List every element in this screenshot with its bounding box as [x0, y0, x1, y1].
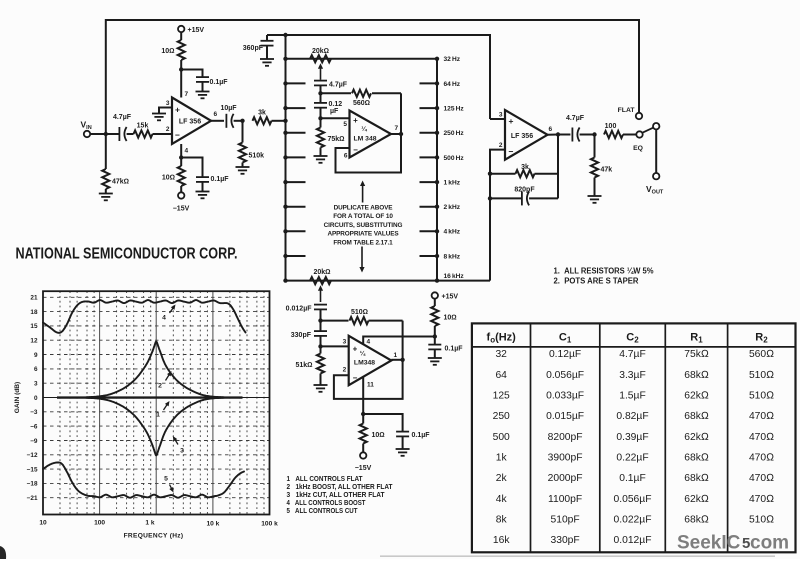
wire VIN to input node: [90, 133, 119, 135]
scan artifact bottom left corner: [0, 546, 6, 559]
switch arm: [643, 128, 654, 133]
ground 47k: [99, 194, 113, 201]
wire bus A stub row 2k: [286, 206, 306, 208]
svg-text:62kΩ: 62kΩ: [684, 494, 709, 505]
wire bus A stub row 1k: [286, 181, 306, 183]
svg-text:3 1kHz CUT, ALL OTHER FLAT: 3 1kHz CUT, ALL OTHER FLAT: [287, 492, 386, 499]
svg-text:0.022µF: 0.022µF: [614, 514, 652, 525]
terminal VIN: [84, 131, 90, 137]
svg-text:−15V: −15V: [355, 465, 372, 472]
svg-text:3k: 3k: [521, 164, 529, 171]
svg-text:3: 3: [180, 448, 184, 455]
resistor 47k output shunt: [594, 135, 596, 158]
svg-text:¼: ¼: [360, 350, 366, 358]
wire row 32Hz pot row: [286, 58, 438, 60]
svg-text:2k: 2k: [496, 473, 508, 484]
svg-text:+15V: +15V: [442, 294, 459, 301]
resistor 100 output: [604, 131, 623, 138]
svg-text:16k: 16k: [493, 535, 510, 546]
ground 75k: [314, 156, 328, 163]
svg-text:64 Hz: 64 Hz: [444, 81, 461, 88]
svg-text:560Ω: 560Ω: [749, 349, 774, 360]
node X band1: [318, 91, 322, 95]
scan artifact bottom smear: [380, 555, 775, 557]
svg-text:820pF: 820pF: [514, 187, 535, 194]
ground 0.1uF pin11: [396, 449, 410, 456]
svg-text:GAIN (dB): GAIN (dB): [14, 382, 21, 414]
svg-text:1.5µF: 1.5µF: [619, 391, 646, 402]
svg-text:FLAT: FLAT: [618, 107, 636, 114]
graph grid 0dB line: [43, 397, 270, 399]
wire feedback vertical to output: [557, 135, 559, 199]
svg-text:4.7µF: 4.7µF: [113, 114, 132, 121]
svg-text:250: 250: [493, 411, 510, 422]
svg-text:−15V: −15V: [173, 206, 190, 213]
svg-text:com: com: [750, 533, 789, 554]
capacitor 4.7uF output coupling: [572, 128, 579, 142]
svg-text:11: 11: [367, 382, 374, 389]
svg-text:4: 4: [185, 148, 189, 155]
svg-text:500 Hz: 500 Hz: [444, 155, 465, 162]
svg-text:LM 348: LM 348: [353, 136, 376, 143]
capacitor C2 4.7uF band1: [314, 81, 327, 86]
svg-text:560Ω: 560Ω: [353, 100, 370, 107]
svg-text:1: 1: [156, 412, 160, 419]
svg-text:500: 500: [493, 432, 510, 443]
svg-text:6: 6: [214, 111, 218, 118]
terminal +15V: [178, 26, 184, 32]
wire R2 band10 down to output: [402, 321, 404, 360]
svg-text:510Ω: 510Ω: [749, 370, 774, 381]
svg-text:470Ω: 470Ω: [749, 473, 774, 484]
svg-text:62kΩ: 62kΩ: [684, 391, 709, 402]
wire pin2 U4 feedback bus: [490, 150, 505, 281]
svg-text:2 kHz: 2 kHz: [444, 204, 461, 211]
wire to node X band10: [320, 309, 322, 320]
wire U3 feedback wrap: [334, 360, 403, 399]
ground 0.1uF pin7: [196, 92, 210, 99]
wire U1 output: [211, 120, 224, 122]
graph decade lines: [99, 291, 101, 514]
ground 47k output: [588, 196, 602, 203]
svg-text:510Ω: 510Ω: [749, 391, 774, 402]
svg-text:68kΩ: 68kΩ: [684, 473, 709, 484]
node U2 output: [399, 132, 403, 136]
svg-text:0.1µF: 0.1µF: [412, 432, 431, 439]
capacitor 360pF: [266, 35, 268, 41]
wire U3 output: [391, 359, 402, 361]
graph axes border: [43, 291, 270, 514]
svg-text:18: 18: [30, 309, 38, 316]
svg-text:−21: −21: [27, 495, 38, 502]
svg-text:0.1µF: 0.1µF: [211, 176, 230, 183]
svg-text:0.012µF: 0.012µF: [286, 306, 313, 313]
capacitor C1 0.12uF band1: [320, 93, 322, 103]
svg-text:3: 3: [34, 381, 38, 388]
svg-text:10Ω: 10Ω: [444, 315, 457, 322]
svg-text:75kΩ: 75kΩ: [328, 136, 345, 143]
svg-text:FROM TABLE 2.17.1: FROM TABLE 2.17.1: [333, 239, 393, 246]
wire bus A stub row 500: [286, 156, 306, 158]
svg-text:68kΩ: 68kΩ: [684, 452, 709, 463]
svg-text:0.1µF: 0.1µF: [619, 473, 646, 484]
svg-text:¼: ¼: [361, 125, 367, 133]
wire VIN-bypass top rail from input node to FLAT switch: [106, 20, 639, 134]
svg-text:0.82µF: 0.82µF: [616, 411, 648, 422]
wire bus B stub row 4k: [420, 230, 438, 232]
resistor 510k shunt: [242, 121, 244, 143]
svg-text:−: −: [353, 146, 358, 155]
ground 0.1uF +15V rail: [428, 358, 442, 365]
svg-text:470Ω: 470Ω: [749, 452, 774, 463]
svg-text:3: 3: [343, 339, 347, 346]
wire bus A stub row 64: [286, 82, 306, 84]
svg-text:10Ω: 10Ω: [162, 175, 175, 182]
svg-text:6: 6: [34, 366, 38, 373]
wire bus A stub row 250: [286, 132, 306, 134]
curve 2 1kHz boost: [86, 342, 224, 398]
svg-text:7: 7: [185, 91, 189, 98]
svg-text:4.7µF: 4.7µF: [619, 349, 646, 360]
graph grid horizontal dashed: [43, 297, 270, 497]
svg-text:1 ALL CONTROLS FLAT: 1 ALL CONTROLS FLAT: [287, 476, 364, 483]
svg-text:360pF: 360pF: [243, 45, 264, 52]
capacitor 0.1uF pin7 bypass: [181, 70, 202, 78]
potentiometer 20k top: [310, 55, 331, 62]
wire wiper cap node: [320, 85, 322, 93]
op-amp U1 LF356 input buffer: [172, 98, 211, 145]
node X band10: [318, 318, 322, 322]
svg-text:20kΩ: 20kΩ: [312, 48, 329, 55]
svg-text:6: 6: [344, 153, 348, 160]
terminal -15V: [178, 192, 184, 198]
terminal EQ: [636, 131, 642, 137]
wire pin4 U3 to +15V rail: [363, 337, 435, 345]
svg-text:0.12µF: 0.12µF: [549, 349, 581, 360]
wire bus A stub row 125: [286, 107, 306, 109]
svg-text:0.12: 0.12: [329, 101, 343, 108]
node bus B bottom junction: [435, 278, 439, 282]
wire bus B right frequency bus: [436, 59, 438, 281]
svg-text:330pF: 330pF: [291, 332, 312, 339]
svg-text:0.22µF: 0.22µF: [616, 452, 648, 463]
ground pin3 U1: [152, 114, 166, 121]
svg-text:LM348: LM348: [354, 360, 375, 367]
table column dividers: [530, 323, 532, 552]
op-amp U2 quarter LM348 band1: [350, 111, 392, 158]
wire bus B stub row 125: [420, 107, 438, 109]
wire bus A stub row 8k: [286, 255, 306, 257]
node bus A row1: [283, 57, 287, 61]
resistor 10 Ohm -15V: [180, 158, 182, 167]
node 10uF output junction: [240, 119, 244, 123]
node U4 output: [556, 132, 560, 136]
terminal FLAT: [636, 113, 642, 119]
capacitor 0.1uF +15V rail: [434, 337, 436, 345]
svg-text:250 Hz: 250 Hz: [444, 130, 465, 137]
svg-text:68kΩ: 68kΩ: [684, 514, 709, 525]
terminal switch pole: [653, 123, 659, 129]
node feedback 3k junction: [488, 172, 492, 176]
svg-text:2: 2: [158, 383, 162, 390]
curve 5 all controls cut: [43, 463, 244, 498]
svg-text:6: 6: [549, 126, 553, 133]
terminal -15V band10: [360, 452, 366, 458]
wire bus B stub row 2k: [420, 206, 438, 208]
node input junction: [104, 132, 108, 136]
wire pole to VOUT: [655, 129, 657, 173]
svg-text:100: 100: [605, 123, 617, 130]
svg-text:1: 1: [394, 352, 398, 359]
svg-text:10Ω: 10Ω: [161, 48, 174, 55]
svg-text:4k: 4k: [496, 494, 508, 505]
wire pin4 U1 supply: [180, 144, 182, 158]
node pin4 supply junction: [179, 155, 183, 159]
wire bus B stub row 500: [420, 156, 438, 158]
wire band10 to pin3: [321, 345, 349, 347]
svg-text:0.033µF: 0.033µF: [546, 391, 584, 402]
op-amp U3 quarter LM348 band10: [349, 336, 392, 385]
svg-text:47k: 47k: [601, 167, 613, 174]
svg-text:8 kHz: 8 kHz: [444, 253, 461, 260]
svg-text:−: −: [175, 130, 180, 140]
svg-text:32: 32: [495, 349, 507, 360]
svg-text:100: 100: [94, 520, 105, 527]
pot wiper arrow top: [320, 66, 322, 80]
node output junction: [592, 132, 596, 136]
svg-text:EQ: EQ: [633, 145, 643, 152]
curve 4 all controls boost: [43, 300, 246, 333]
ground 0.1uF pin4: [196, 192, 210, 199]
svg-text:5: 5: [164, 476, 168, 483]
svg-text:4 kHz: 4 kHz: [444, 229, 461, 236]
resistor 10 Ohm +15V: [180, 60, 182, 70]
svg-text:+: +: [353, 116, 358, 125]
wire bus B stub row 250: [420, 132, 438, 134]
wire bus A stub row 4k: [286, 230, 306, 232]
svg-text:2: 2: [166, 126, 170, 133]
wire box top rail to 360pF and output amp pin3: [267, 35, 490, 119]
svg-text:+: +: [509, 116, 514, 126]
svg-text:FREQUENCY (Hz): FREQUENCY (Hz): [124, 533, 184, 540]
svg-text:8200pF: 8200pF: [548, 432, 583, 443]
svg-text:1 k: 1 k: [145, 520, 154, 527]
capacitor C2 330pF band10: [320, 321, 322, 332]
svg-text:100 k: 100 k: [261, 521, 278, 528]
resistor R1 75k band1: [320, 118, 322, 127]
svg-text:16 kHz: 16 kHz: [444, 273, 465, 280]
ground 360pF: [260, 59, 274, 66]
svg-text:10 k: 10 k: [206, 521, 219, 528]
svg-text:510Ω: 510Ω: [749, 514, 774, 525]
node U3 output: [400, 358, 404, 362]
wire bus B stub row 8k: [420, 255, 438, 257]
svg-text:470Ω: 470Ω: [749, 411, 774, 422]
node feedback 820pF junction: [488, 196, 492, 200]
svg-text:1 kHz: 1 kHz: [444, 180, 461, 187]
svg-text:NATIONAL SEMICONDUCTOR CORP.: NATIONAL SEMICONDUCTOR CORP.: [16, 246, 238, 263]
resistor 10 Ohm -15V band10: [362, 414, 364, 424]
svg-text:21: 21: [30, 295, 38, 302]
svg-text:4.7µF: 4.7µF: [566, 115, 585, 122]
svg-text:8k: 8k: [496, 514, 508, 525]
potentiometer 20k bottom: [310, 277, 331, 284]
svg-text:12: 12: [30, 338, 38, 345]
svg-text:3: 3: [166, 100, 170, 107]
svg-text:20kΩ: 20kΩ: [313, 269, 330, 276]
node pin11 junction: [361, 412, 365, 416]
arrow duplicate up: [362, 184, 364, 203]
svg-text:68kΩ: 68kΩ: [684, 411, 709, 422]
svg-text:+15V: +15V: [188, 27, 205, 34]
curve 1 all controls flat: [57, 396, 243, 398]
svg-text:2. POTS ARE S TAPER: 2. POTS ARE S TAPER: [554, 276, 639, 285]
table component values border: [472, 323, 796, 552]
svg-text:125 Hz: 125 Hz: [444, 106, 465, 113]
node bus B top corner: [435, 57, 439, 61]
curve 3 1kHz cut: [86, 398, 224, 456]
ground 510k: [236, 167, 250, 174]
svg-text:+: +: [353, 345, 358, 354]
wire pin3 U4: [490, 118, 505, 120]
svg-text:0.015µF: 0.015µF: [546, 411, 584, 422]
capacitor C1 0.012uF band10: [314, 305, 327, 310]
capacitor 4.7uF input coupling: [119, 127, 126, 141]
svg-text:−9: −9: [30, 438, 38, 445]
svg-text:5: 5: [343, 121, 347, 128]
resistor 10 Ohm +15V band10: [434, 299, 436, 306]
capacitor 0.1uF pin11 bypass: [363, 414, 402, 432]
svg-text:µF: µF: [330, 108, 339, 115]
pot wiper arrow bottom: [320, 288, 322, 302]
svg-text:4.7µF: 4.7µF: [329, 82, 348, 89]
svg-text:510pF: 510pF: [550, 514, 579, 525]
capacitor 820pF feedback: [490, 197, 522, 199]
capacitor 0.1uF pin4 bypass: [181, 158, 202, 178]
svg-text:2000pF: 2000pF: [548, 473, 583, 484]
svg-text:68kΩ: 68kΩ: [684, 370, 709, 381]
svg-text:1k: 1k: [496, 452, 508, 463]
terminal VOUT: [653, 173, 659, 179]
svg-text:3.3µF: 3.3µF: [619, 370, 646, 381]
svg-text:DUPLICATE ABOVE: DUPLICATE ABOVE: [334, 205, 394, 212]
terminal +15V band10: [432, 292, 438, 298]
svg-text:0.39µF: 0.39µF: [616, 432, 648, 443]
svg-text:51kΩ: 51kΩ: [295, 362, 312, 369]
svg-text:7: 7: [395, 125, 399, 132]
svg-text:470Ω: 470Ω: [749, 494, 774, 505]
svg-text:−: −: [509, 147, 514, 157]
svg-text:−15: −15: [27, 466, 38, 473]
svg-text:510Ω: 510Ω: [351, 309, 368, 316]
node band1 plus input: [318, 116, 322, 120]
resistor 15k: [134, 130, 153, 137]
arrow duplicate down: [361, 247, 363, 270]
svg-text:0.1µF: 0.1µF: [445, 346, 464, 353]
svg-text:+: +: [175, 105, 180, 115]
wire U2 feedback wrap: [336, 134, 402, 173]
svg-text:125: 125: [493, 391, 510, 402]
node pin7 supply junction: [179, 67, 183, 71]
wire band1 to pin5: [321, 117, 350, 119]
capacitor 10uF coupling: [226, 114, 233, 128]
ground 51k: [314, 385, 328, 392]
wire U2 output: [391, 133, 401, 135]
wire bus B stub row 64: [420, 82, 438, 84]
svg-text:510k: 510k: [249, 153, 265, 160]
op-amp U4 LF356 output: [505, 110, 548, 160]
wire U4 output: [548, 134, 559, 136]
svg-text:15: 15: [30, 323, 38, 330]
svg-text:−3: −3: [30, 409, 38, 416]
svg-text:9: 9: [34, 352, 38, 359]
svg-text:APPROPRIATE VALUES: APPROPRIATE VALUES: [327, 231, 399, 238]
resistor 47k input shunt: [105, 134, 107, 169]
svg-text:2 1kHz BOOST, ALL OTHER FLAT: 2 1kHz BOOST, ALL OTHER FLAT: [287, 484, 394, 491]
svg-text:CIRCUITS, SUBSTITUTING: CIRCUITS, SUBSTITUTING: [324, 222, 403, 229]
resistor 3k feedback: [490, 173, 516, 175]
svg-text:LF 356: LF 356: [511, 133, 533, 140]
table header underline: [472, 346, 796, 348]
node +15V rail junction: [433, 334, 437, 338]
graph grid vertical dashed: [60, 291, 264, 514]
wire row 16kHz pot row / box bottom: [286, 280, 491, 282]
wire R2 down to output: [400, 93, 402, 134]
svg-text:0.012µF: 0.012µF: [614, 535, 652, 546]
wire bus B stub row 1k: [420, 181, 438, 183]
svg-text:4: 4: [367, 339, 371, 346]
resistor R2 560 band1: [321, 92, 352, 94]
svg-text:5 ALL CONTROLS CUT: 5 ALL CONTROLS CUT: [287, 508, 359, 515]
node bus A row10: [283, 278, 287, 282]
svg-text:1100pF: 1100pF: [548, 494, 582, 505]
svg-text:10: 10: [39, 520, 47, 527]
svg-text:1. ALL RESISTORS ¼W 5%: 1. ALL RESISTORS ¼W 5%: [554, 267, 654, 276]
svg-text:330pF: 330pF: [550, 535, 579, 546]
resistor R1 51k band10: [320, 346, 322, 353]
svg-text:0.056µF: 0.056µF: [614, 494, 652, 505]
svg-text:470Ω: 470Ω: [749, 432, 774, 443]
wire pin7 U1 supply: [180, 70, 182, 98]
svg-text:2: 2: [499, 142, 503, 149]
svg-text:15k: 15k: [137, 123, 149, 130]
svg-text:−12: −12: [27, 452, 38, 459]
svg-text:0: 0: [34, 395, 38, 402]
svg-text:10µF: 10µF: [220, 105, 237, 112]
svg-text:−: −: [353, 374, 358, 383]
svg-text:0.056µF: 0.056µF: [546, 370, 584, 381]
svg-text:47kΩ: 47kΩ: [112, 179, 129, 186]
svg-text:−6: −6: [30, 423, 38, 430]
svg-text:0.1µF: 0.1µF: [210, 79, 229, 86]
svg-text:62kΩ: 62kΩ: [684, 432, 709, 443]
svg-text:FOR A TOTAL OF 10: FOR A TOTAL OF 10: [333, 213, 393, 220]
svg-text:3900pF: 3900pF: [548, 452, 583, 463]
svg-text:4 ALL CONTROLS BOOST: 4 ALL CONTROLS BOOST: [287, 500, 367, 507]
node band10 plus input: [318, 344, 322, 348]
node 3k joins bus A: [283, 119, 287, 123]
wire bus A left summing bus: [285, 35, 287, 281]
svg-text:LF 356: LF 356: [179, 119, 201, 126]
svg-text:3k: 3k: [258, 110, 266, 117]
svg-text:64: 64: [495, 370, 507, 381]
svg-text:3: 3: [499, 112, 503, 119]
svg-text:4: 4: [162, 315, 166, 322]
wire pin11 U3 down: [362, 377, 364, 414]
svg-text:32 Hz: 32 Hz: [444, 56, 461, 63]
svg-text:SeekIC: SeekIC: [677, 533, 741, 554]
svg-text:10Ω: 10Ω: [372, 432, 385, 439]
